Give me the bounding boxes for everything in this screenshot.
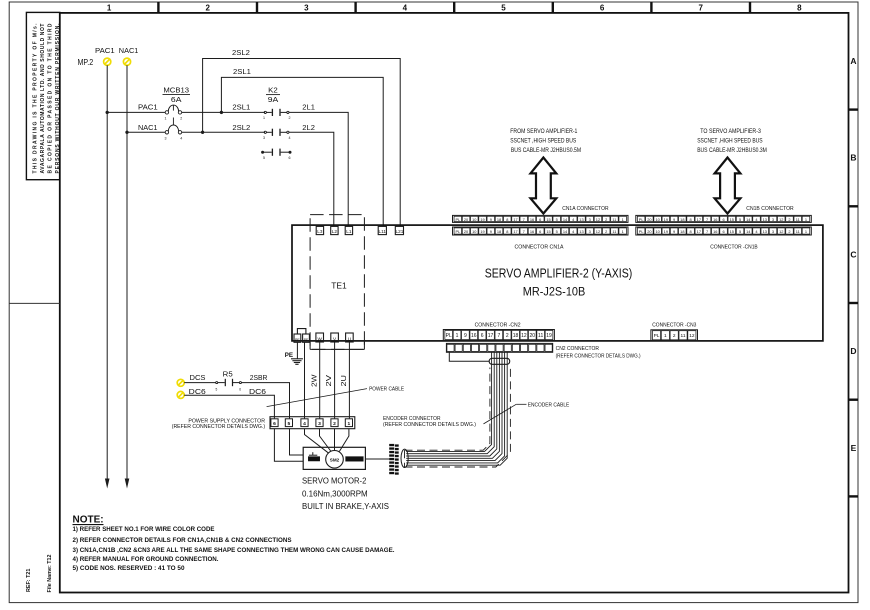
svg-text:5: 5 [216, 387, 218, 391]
svg-text:TO SERVO AMPLIFIER-3: TO SERVO AMPLIFIER-3 [700, 129, 761, 135]
svg-text:12: 12 [521, 333, 527, 339]
svg-text:L3: L3 [317, 229, 323, 234]
svg-text:6: 6 [239, 387, 241, 391]
right margin row divider ticks [849, 110, 859, 497]
svg-text:6: 6 [481, 333, 484, 339]
svg-text:L2: L2 [332, 229, 338, 234]
svg-text:1: 1 [664, 333, 667, 339]
svg-text:4: 4 [289, 136, 291, 140]
arrowhead NAC1 feeder [125, 479, 130, 489]
svg-text:PL: PL [446, 333, 452, 339]
svg-text:3: 3 [318, 421, 321, 427]
wire 2L2 to L2 [289, 132, 334, 226]
terminal U [346, 333, 354, 342]
connector CN1A bottom pin row [453, 227, 629, 235]
power supply connector pin row 6..1 [270, 417, 355, 429]
svg-text:2SL1: 2SL1 [232, 103, 250, 112]
encoder connector ring [401, 449, 408, 467]
svg-text:(REFER CONNECTOR DETAILS DWG.): (REFER CONNECTOR DETAILS DWG.) [172, 424, 265, 430]
svg-text:9: 9 [490, 217, 492, 222]
svg-text:W: W [318, 337, 323, 342]
svg-text:17: 17 [697, 229, 701, 234]
svg-text:19: 19 [480, 229, 484, 234]
svg-text:7: 7 [523, 229, 525, 234]
svg-text:A: A [850, 56, 856, 66]
svg-text:U: U [348, 337, 351, 342]
svg-text:15: 15 [546, 217, 550, 222]
label ENCODER CABLE with leader [484, 403, 570, 424]
svg-text:1: 1 [165, 117, 167, 121]
connector CN1A top pin row [453, 215, 629, 222]
svg-text:7: 7 [523, 217, 525, 222]
svg-text:PE: PE [295, 338, 300, 342]
svg-text:5: 5 [263, 156, 265, 160]
wire 2SL1 riser [221, 77, 383, 226]
svg-text:NAC1: NAC1 [119, 46, 139, 55]
svg-text:1: 1 [622, 217, 624, 222]
svg-text:ENCODER CABLE: ENCODER CABLE [528, 403, 570, 409]
svg-text:11: 11 [538, 333, 543, 339]
svg-text:13: 13 [763, 217, 767, 222]
junction 2SL2 tap [201, 131, 204, 134]
wire W to power connector pin 3 [319, 342, 321, 419]
wire 2SL1 MCB to K2 [182, 111, 265, 113]
label POWER SUPPLY CONNECTOR [172, 418, 265, 430]
wire U to power connector pin 1 [348, 342, 350, 419]
terminal L21 [395, 226, 403, 234]
svg-text:2U: 2U [339, 375, 348, 387]
svg-text:16: 16 [713, 217, 717, 222]
sscnet bus arrow CN1B [715, 158, 741, 214]
wire PAC1 to MCB [107, 111, 165, 113]
servo amplifier-2 enclosure [292, 225, 823, 341]
svg-text:2: 2 [205, 4, 210, 13]
svg-text:20: 20 [530, 333, 536, 339]
breaker MCB13 mechanical link [172, 118, 174, 126]
top margin column divider ticks [158, 2, 750, 13]
terminal PE 2 [303, 334, 310, 342]
svg-text:SSCNET ,HIGH SPEED BUS: SSCNET ,HIGH SPEED BUS [697, 138, 762, 144]
svg-text:PAC1: PAC1 [138, 103, 158, 112]
svg-text:NAC1: NAC1 [138, 123, 158, 132]
svg-text:1: 1 [805, 217, 807, 222]
svg-text:18: 18 [680, 229, 684, 234]
disclaimer box (rotated ownership text) [26, 12, 60, 179]
svg-text:1: 1 [263, 116, 265, 120]
terminal L3 [316, 226, 323, 234]
svg-text:19: 19 [546, 333, 552, 339]
wire V to power connector pin 2 [334, 342, 336, 419]
svg-text:0.16Nm,3000RPM: 0.16Nm,3000RPM [302, 488, 368, 498]
contactor K2 labels [266, 86, 280, 105]
svg-text:3: 3 [589, 217, 591, 222]
svg-text:2SL1: 2SL1 [233, 67, 251, 76]
svg-text:6: 6 [722, 229, 724, 234]
svg-text:19: 19 [664, 217, 668, 222]
svg-text:2V: 2V [324, 375, 333, 387]
svg-text:MP.2: MP.2 [78, 58, 94, 67]
connector CN3 pin row [651, 330, 698, 341]
connector CN1B top pin row [636, 215, 812, 222]
svg-text:6: 6 [289, 156, 291, 160]
svg-text:4: 4 [303, 421, 306, 427]
supply terminal NAC1 (yellow circle) [123, 58, 130, 65]
svg-text:18: 18 [497, 217, 501, 222]
terminal W [316, 333, 324, 342]
notes heading [73, 515, 104, 526]
svg-text:SERVO AMPLIFIER-2 (Y-AXIS): SERVO AMPLIFIER-2 (Y-AXIS) [485, 266, 633, 281]
svg-text:2: 2 [289, 116, 291, 120]
svg-text:5: 5 [739, 229, 741, 234]
svg-text:11: 11 [612, 229, 616, 234]
encoder cable dashed outline [405, 368, 511, 468]
right margin row letters A-E [850, 56, 856, 453]
svg-text:PAC1: PAC1 [95, 46, 115, 55]
svg-text:PL: PL [455, 229, 461, 234]
svg-text:NOTE:: NOTE: [73, 515, 104, 526]
svg-text:2: 2 [673, 333, 676, 339]
terminal V [331, 333, 339, 342]
contactor K2 contact 3-4 [263, 129, 291, 140]
svg-text:6: 6 [539, 229, 541, 234]
svg-text:MR-J2S-10B: MR-J2S-10B [523, 285, 586, 299]
svg-text:POWER CABLE: POWER CABLE [369, 386, 404, 392]
svg-text:9: 9 [464, 333, 467, 339]
svg-text:BUS CABLE-MR J2HBUS0.3M: BUS CABLE-MR J2HBUS0.3M [697, 148, 767, 154]
svg-text:6A: 6A [171, 95, 183, 104]
wire motor to encoder connector [365, 458, 389, 460]
svg-text:2: 2 [333, 421, 336, 427]
svg-text:7: 7 [497, 333, 500, 339]
wire PE2 to power connector pin 4 [304, 342, 306, 418]
encoder connector (ribbed plug) [389, 444, 398, 475]
contactor K2 contact 5-6 (spare) [262, 149, 291, 160]
svg-text:15: 15 [730, 229, 734, 234]
contactor K2 contact 1-2 [263, 109, 291, 120]
svg-text:8: 8 [797, 4, 802, 13]
terminal PE 1 [294, 334, 301, 342]
svg-text:3) CN1A,CN1B ,CN2 &CN3 ARE ALL: 3) CN1A,CN1B ,CN2 &CN3 ARE ALL THE SAME … [73, 548, 395, 554]
svg-text:PE: PE [285, 352, 293, 359]
svg-text:8: 8 [689, 229, 691, 234]
svg-text:11: 11 [796, 217, 800, 222]
svg-text:K2: K2 [268, 86, 278, 95]
svg-text:C: C [850, 249, 856, 259]
svg-text:18: 18 [680, 217, 684, 222]
svg-text:13: 13 [579, 217, 583, 222]
svg-text:16: 16 [530, 217, 534, 222]
svg-text:(REFER CONNECTOR DETAILS DWG.): (REFER CONNECTOR DETAILS DWG.) [383, 422, 476, 428]
svg-text:2SL2: 2SL2 [232, 123, 250, 132]
svg-text:E: E [851, 443, 857, 453]
supply terminal DCS (yellow circle) [177, 379, 184, 386]
svg-text:2: 2 [788, 229, 790, 234]
svg-text:17: 17 [513, 217, 517, 222]
wire PE to ground [296, 342, 298, 359]
svg-text:16: 16 [713, 229, 717, 234]
wire pin2 to motor [334, 429, 336, 450]
svg-text:SM2: SM2 [330, 457, 340, 462]
breaker MCB13 pole 1 [165, 105, 183, 120]
svg-text:5: 5 [556, 229, 558, 234]
svg-text:BUS CABLE-MR J2HBUS0.5M: BUS CABLE-MR J2HBUS0.5M [511, 148, 581, 154]
svg-text:12: 12 [779, 217, 783, 222]
sscnet bus arrow CN1A [531, 158, 557, 214]
terminal block TE1 dashed outline [310, 215, 364, 350]
svg-text:File Name: T12: File Name: T12 [47, 554, 53, 592]
svg-text:9: 9 [673, 217, 675, 222]
svg-text:2W: 2W [309, 374, 318, 387]
ground symbol [291, 359, 303, 365]
wire pin5 to brake [290, 429, 304, 455]
encoder cable bundle (L-bend) [406, 352, 507, 465]
wire pin6 to brake [274, 429, 303, 462]
svg-text:L1: L1 [346, 229, 352, 234]
svg-text:2SL2: 2SL2 [232, 48, 250, 57]
svg-text:12: 12 [689, 333, 695, 339]
svg-text:5: 5 [739, 217, 741, 222]
breaker MCB13 pole 2 [165, 125, 183, 140]
svg-text:4: 4 [403, 4, 408, 13]
bottom-left REF and file name rotated labels [26, 554, 53, 592]
svg-text:7: 7 [706, 229, 708, 234]
svg-text:4) REFER MANUAL FOR GROUND CON: 4) REFER MANUAL FOR GROUND CONNECTION. [73, 557, 219, 563]
svg-text:REF: T21: REF: T21 [26, 569, 32, 592]
svg-text:BUILT IN BRAKE,Y-AXIS: BUILT IN BRAKE,Y-AXIS [302, 501, 389, 511]
top margin column numbers 1-8 [107, 4, 802, 13]
svg-text:3: 3 [304, 4, 309, 13]
svg-text:1: 1 [622, 229, 624, 234]
svg-text:13: 13 [763, 229, 767, 234]
svg-text:3: 3 [772, 229, 774, 234]
svg-text:R5: R5 [223, 370, 233, 379]
svg-text:PL: PL [654, 333, 660, 339]
svg-text:CN1A CONNECTOR: CN1A CONNECTOR [562, 206, 608, 212]
svg-text:12: 12 [596, 229, 600, 234]
svg-text:BE COPIED OR PASSED ON TO: BE COPIED OR PASSED ON TO THE THIRD [47, 23, 53, 173]
label FROM SERVO AMPLIFIER-1 block [510, 129, 581, 154]
svg-text:11: 11 [681, 333, 686, 339]
svg-text:8: 8 [506, 229, 508, 234]
svg-text:CN1B CONNECTOR: CN1B CONNECTOR [746, 206, 793, 212]
wire NAC1 to MCB [127, 131, 165, 133]
svg-text:PL: PL [455, 217, 461, 222]
connector CN1B bottom pin row [636, 227, 812, 235]
svg-text:DCS: DCS [190, 373, 206, 382]
arrowhead PAC1 feeder [105, 479, 110, 489]
supply terminal PAC1 (yellow circle) [104, 58, 111, 65]
svg-text:7: 7 [706, 217, 708, 222]
wire 2SL2 MCB to K2 [182, 131, 265, 133]
svg-text:CONNECTOR CN1A: CONNECTOR CN1A [515, 244, 564, 250]
svg-text:5) CODE NOS. RESERVED : 41 TO: 5) CODE NOS. RESERVED : 41 TO 50 [73, 566, 186, 572]
wire CN2 PL to encoder cable shield [449, 352, 489, 361]
svg-text:5: 5 [556, 217, 558, 222]
svg-text:8: 8 [506, 217, 508, 222]
svg-text:L21: L21 [395, 229, 403, 234]
svg-text:MCB13: MCB13 [163, 86, 189, 95]
svg-text:9: 9 [673, 229, 675, 234]
svg-text:SSCNET ,HIGH SPEED BUS: SSCNET ,HIGH SPEED BUS [510, 138, 576, 144]
svg-text:1: 1 [348, 421, 351, 427]
supply terminal DC6 (yellow circle) [177, 391, 184, 398]
svg-text:8: 8 [689, 217, 691, 222]
svg-text:6: 6 [273, 421, 276, 427]
svg-text:19: 19 [480, 217, 484, 222]
svg-text:18: 18 [513, 333, 519, 339]
svg-text:19: 19 [664, 229, 668, 234]
junction PAC1 tap [106, 111, 109, 114]
svg-text:1: 1 [805, 229, 807, 234]
svg-text:3: 3 [263, 136, 265, 140]
svg-text:3: 3 [165, 136, 167, 140]
connector CN2 pin row [443, 330, 554, 341]
svg-text:3: 3 [772, 217, 774, 222]
svg-text:PL: PL [639, 229, 645, 234]
svg-text:PE: PE [304, 338, 309, 342]
svg-text:CONNECTOR -CN2: CONNECTOR -CN2 [475, 322, 521, 328]
motor brake block [308, 452, 319, 461]
svg-text:12: 12 [779, 229, 783, 234]
wire 2SL2 riser [203, 59, 401, 227]
svg-text:CN2 CONNECTOR: CN2 CONNECTOR [556, 346, 599, 352]
svg-text:11: 11 [796, 229, 800, 234]
svg-text:4: 4 [180, 136, 182, 140]
svg-text:2: 2 [605, 229, 607, 234]
svg-text:L11: L11 [379, 229, 387, 234]
encoder cable clamp sleeve [489, 358, 510, 364]
svg-text:11: 11 [612, 217, 616, 222]
svg-text:2L2: 2L2 [302, 123, 315, 132]
svg-text:2SBR: 2SBR [250, 373, 268, 382]
connector CN2 mating row (below) [446, 343, 552, 352]
svg-text:2: 2 [506, 333, 509, 339]
label TO SERVO AMPLIFIER-3 block [697, 129, 767, 154]
svg-text:17: 17 [513, 229, 517, 234]
svg-text:3: 3 [589, 229, 591, 234]
svg-text:15: 15 [546, 229, 550, 234]
wire DC6 to power connector pin 6 [184, 395, 274, 418]
label POWER CABLE with leader [267, 386, 405, 406]
breaker MCB13 labels [163, 86, 191, 105]
svg-text:2: 2 [788, 217, 790, 222]
terminal L2 [331, 226, 338, 234]
svg-text:1) REFER SHEET NO.1 FOR WIRE C: 1) REFER SHEET NO.1 FOR WIRE COLOR CODE [73, 527, 215, 533]
svg-text:2) REFER CONNECTOR DETAILS FOR: 2) REFER CONNECTOR DETAILS FOR CN1A,CN1B… [73, 538, 292, 544]
svg-text:6: 6 [722, 217, 724, 222]
wire 2SBR to power connector pin 5 [241, 383, 289, 419]
wire pin3 to motor [320, 429, 331, 451]
servo motor-2 body [303, 447, 365, 469]
junction 2SL1 tap [220, 111, 223, 114]
svg-text:6: 6 [600, 4, 605, 13]
svg-text:(REFER CONNECTOR DETAILS DWG.): (REFER CONNECTOR DETAILS DWG.) [556, 353, 641, 359]
svg-text:FROM SERVO AMPLIFIER-1: FROM SERVO AMPLIFIER-1 [510, 129, 578, 135]
svg-text:1: 1 [107, 4, 112, 13]
svg-text:1: 1 [456, 333, 459, 339]
PE jumper link [297, 329, 306, 334]
svg-text:6: 6 [539, 217, 541, 222]
wire 2L1 to L1 [289, 112, 348, 226]
svg-text:9A: 9A [268, 95, 280, 104]
svg-text:PERSONS WITHOUT OUR WRITTEN: PERSONS WITHOUT OUR WRITTEN PERMISSION. [55, 23, 61, 174]
svg-text:TE1: TE1 [331, 281, 347, 291]
svg-text:9: 9 [490, 229, 492, 234]
svg-text:2: 2 [605, 217, 607, 222]
wire PAC1 vertical feeder [106, 65, 108, 479]
svg-text:16: 16 [530, 229, 534, 234]
left margin divider [9, 302, 60, 304]
svg-text:CONNECTOR -CN3: CONNECTOR -CN3 [652, 322, 696, 328]
svg-text:B: B [850, 153, 856, 163]
terminal L1 [345, 226, 352, 234]
svg-text:18: 18 [497, 229, 501, 234]
motor symbol SM2 [326, 451, 344, 469]
svg-text:5: 5 [288, 421, 291, 427]
svg-text:17: 17 [488, 333, 494, 339]
motor shaft/encoder block [346, 457, 364, 462]
svg-text:17: 17 [697, 217, 701, 222]
svg-text:15: 15 [730, 217, 734, 222]
svg-text:12: 12 [596, 217, 600, 222]
svg-text:AVAGARPALA AUTOMATION LTD. AND: AVAGARPALA AUTOMATION LTD. AND SHOULD NO… [40, 24, 46, 174]
svg-text:D: D [850, 346, 856, 356]
svg-text:13: 13 [579, 229, 583, 234]
label ENCODER CONNECTOR [383, 416, 476, 428]
wire NAC1 vertical feeder [126, 65, 128, 479]
svg-text:DC6: DC6 [249, 387, 266, 396]
wire pin4 to motor [305, 429, 329, 453]
terminal L11 [378, 226, 386, 234]
contact R5 [216, 370, 242, 392]
svg-text:7: 7 [698, 4, 703, 13]
wire pin1 to motor [339, 429, 349, 452]
svg-text:2: 2 [180, 117, 182, 121]
svg-text:2L1: 2L1 [302, 103, 315, 112]
junction NAC1 tap [126, 131, 129, 134]
svg-text:CONNECTOR -CN1B: CONNECTOR -CN1B [710, 244, 758, 250]
svg-text:16: 16 [471, 333, 477, 339]
svg-text:PL: PL [639, 217, 645, 222]
svg-text:5: 5 [501, 4, 506, 13]
svg-text:SERVO MOTOR-2: SERVO MOTOR-2 [302, 476, 367, 486]
wire DCS to R5 contact [184, 382, 216, 384]
